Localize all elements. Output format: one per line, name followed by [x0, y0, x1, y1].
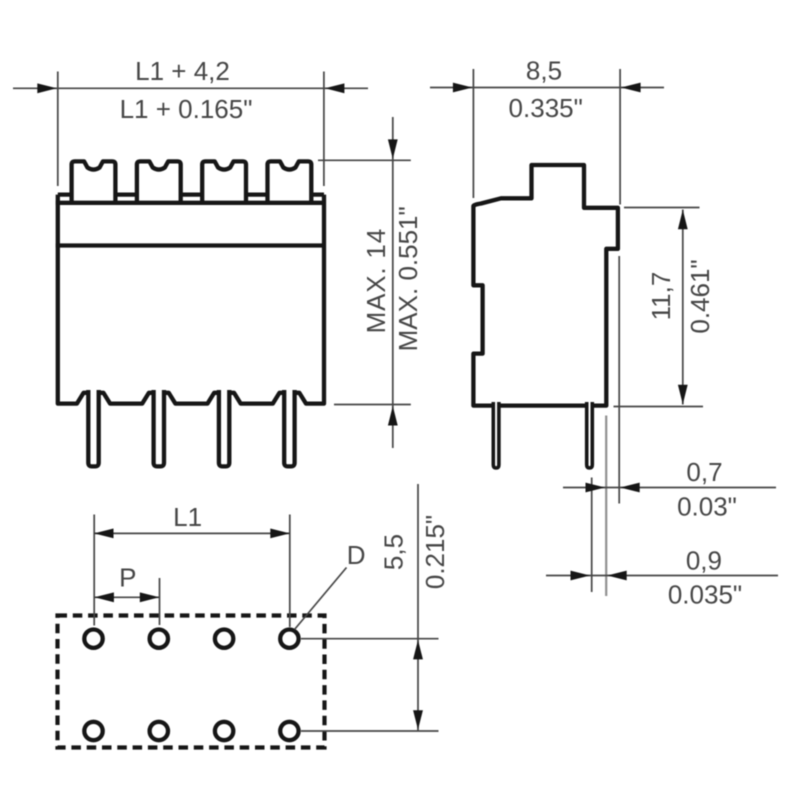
- front body outline with wavy bottom: [58, 195, 324, 404]
- front body mid line: [56, 243, 326, 247]
- extension line P right: [159, 578, 161, 625]
- arrow 11,7 bottom: [678, 385, 688, 405]
- svg-text:0.215": 0.215": [420, 515, 450, 589]
- extension line right of L1+4,2: [323, 72, 325, 187]
- arrow L1+4,2 left: [37, 83, 57, 93]
- svg-text:0.335": 0.335": [509, 93, 583, 123]
- svg-text:0.035": 0.035": [668, 580, 742, 610]
- svg-text:MAX. 14: MAX. 14: [361, 228, 391, 333]
- svg-text:5,5: 5,5: [379, 534, 409, 570]
- side view body outline: [473, 165, 618, 406]
- dimension 0,7 line: [563, 487, 776, 489]
- dimension 0,9 line: [546, 575, 778, 577]
- arrow 0,7 right: [620, 483, 640, 493]
- arrow L1 left: [94, 529, 114, 539]
- arrow P right: [140, 592, 160, 602]
- clamp tooth 2: [137, 161, 181, 204]
- pcb dashed outline: [58, 616, 325, 748]
- dimension L1+4,2 line: [13, 87, 368, 89]
- dimension MAX.14 vertical line: [392, 117, 394, 448]
- arrow 0,9 right: [607, 571, 627, 581]
- solder pin 4 (front): [284, 390, 294, 466]
- arrow MAX14 bottom: [388, 406, 398, 426]
- svg-text:P: P: [119, 562, 136, 592]
- extension line lower right face (gray): [605, 416, 607, 597]
- svg-text:0,7: 0,7: [686, 457, 722, 487]
- side pin left: [493, 402, 499, 468]
- svg-text:11,7: 11,7: [646, 272, 676, 321]
- extension line teeth top to MAX dim: [318, 159, 411, 161]
- dimension 8,5 line: [430, 87, 664, 89]
- extension line left of L1+4,2: [57, 72, 59, 187]
- front rail top line: [58, 192, 324, 196]
- svg-text:L1 + 0.165": L1 + 0.165": [120, 94, 253, 124]
- clamp tooth 1: [72, 161, 116, 204]
- dimension L1 line: [94, 532, 290, 534]
- hole row 1: [84, 630, 102, 648]
- extension line body bottom to MAX dim: [334, 404, 411, 406]
- front body top line: [56, 201, 326, 205]
- extension line side bottom right: [614, 406, 704, 408]
- extension line upper right face: [618, 256, 620, 504]
- leader line D: [295, 568, 347, 630]
- svg-text:L1 + 4,2: L1 + 4,2: [135, 56, 230, 86]
- dimension 11,7 vertical line: [682, 210, 684, 405]
- hole row 2: [84, 722, 102, 740]
- svg-text:MAX. 0.551": MAX. 0.551": [393, 206, 423, 351]
- solder pin 1 (front): [88, 390, 98, 466]
- clamp tooth 4: [268, 161, 312, 204]
- svg-text:0,9: 0,9: [686, 546, 722, 576]
- arrow L1+4,2 right: [325, 83, 345, 93]
- side pin right: [587, 402, 593, 468]
- arrow 0,7 left: [586, 483, 606, 493]
- solder pin 3 (front): [219, 390, 229, 466]
- svg-text:8,5: 8,5: [526, 56, 562, 86]
- clamp tooth 3: [202, 161, 246, 204]
- extension line left of 8,5: [472, 69, 474, 198]
- dimension P line: [94, 596, 159, 598]
- solder pin 2 (front): [154, 390, 164, 466]
- arrow MAX14 top: [388, 139, 398, 159]
- arrow 0,9 left: [571, 571, 591, 581]
- arrow 8,5 left: [453, 83, 473, 93]
- svg-text:D: D: [347, 540, 366, 570]
- arrow 5,5 bottom: [413, 710, 423, 730]
- extension line pin right edge: [591, 478, 593, 593]
- arrow P left: [94, 592, 114, 602]
- arrow 11,7 top: [678, 210, 688, 230]
- svg-text:0.461": 0.461": [685, 259, 715, 333]
- extension line side top right: [624, 207, 700, 209]
- arrow 5,5 top: [413, 640, 423, 660]
- arrow L1 right: [270, 529, 290, 539]
- extension line hole row 2: [301, 730, 439, 732]
- extension line right of 8,5: [619, 69, 621, 205]
- extension line L1 right: [289, 515, 291, 628]
- dimension 5,5 vertical line: [417, 484, 419, 731]
- svg-text:0.03": 0.03": [677, 492, 737, 522]
- extension line hole row 1: [301, 638, 439, 640]
- extension line L1 left: [93, 515, 95, 626]
- arrow 8,5 right: [621, 83, 641, 93]
- svg-text:L1: L1: [173, 502, 202, 532]
